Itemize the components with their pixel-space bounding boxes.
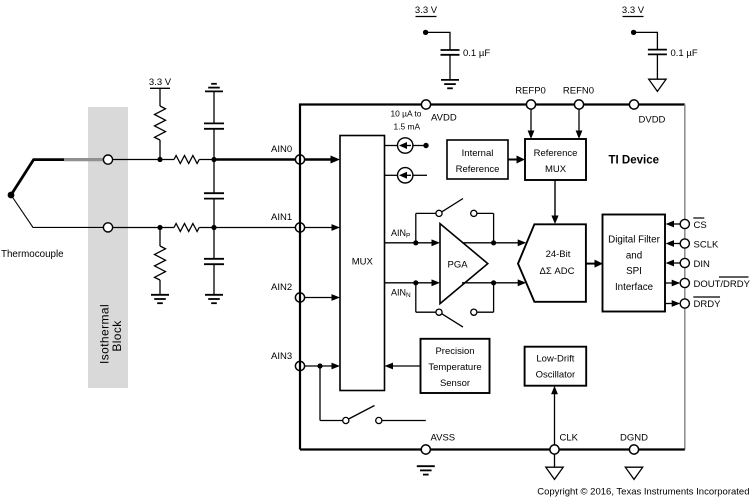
- junction node AIN0 filter: [211, 157, 216, 162]
- Low-Drift Oscillator block: [525, 347, 587, 386]
- wire R1 to node: [159, 140, 161, 160]
- pin REFP0: [526, 100, 535, 109]
- capacitor C2 (differential): [204, 193, 224, 198]
- pin DIN wire/arrow: [672, 262, 681, 264]
- node IDAC1 to AVDD: [423, 143, 428, 148]
- 3.3V supply (AVDD bypass): [415, 5, 438, 17]
- ground (C4): [441, 80, 459, 88]
- svg-text:0.1 µF: 0.1 µF: [671, 48, 698, 59]
- svg-text:TI Device: TI Device: [609, 155, 660, 167]
- MUX U-block: [340, 136, 385, 391]
- pin AIN3: [295, 361, 304, 370]
- wire terminal to series resistor (bottom): [113, 227, 174, 229]
- wire C1 to AIN0 node: [213, 129, 215, 160]
- pin DOUT/DRDY wire/arrow: [666, 282, 674, 284]
- capacitor C3: [204, 259, 224, 264]
- wire switch S1 to AVSS node: [382, 420, 426, 422]
- svg-text:Digital Filter: Digital Filter: [608, 235, 660, 246]
- svg-text:Oscillator: Oscillator: [536, 370, 576, 381]
- svg-text:AVSS: AVSS: [431, 433, 456, 444]
- PGA bypass switch (top): [416, 199, 494, 243]
- svg-text:AIN0: AIN0: [271, 144, 292, 155]
- wire to bypass cap C5: [634, 32, 658, 49]
- wire R3 to ground: [159, 280, 161, 295]
- wire CLK to digital ground: [554, 454, 556, 467]
- CS label: [693, 218, 706, 231]
- DRDY label: [693, 297, 721, 310]
- op-amp PGA: [440, 224, 488, 304]
- svg-text:REFN0: REFN0: [563, 86, 594, 97]
- svg-text:DOUT/DRDY: DOUT/DRDY: [694, 279, 750, 290]
- svg-text:0.1 µF: 0.1 µF: [463, 48, 490, 59]
- thermocouple positive lead (thick): [11, 160, 108, 195]
- wire AIN0 (bold) into device: [214, 158, 332, 161]
- node 3.3V (DVDD): [631, 30, 636, 35]
- pin AVSS: [421, 445, 430, 454]
- wire/arrow CLK to oscillator: [554, 392, 556, 446]
- wire C3 to ground: [213, 264, 215, 294]
- pin AVDD: [421, 100, 430, 109]
- capacitor C5 0.1uF: [648, 50, 667, 55]
- wire AIN0 node to C2: [213, 160, 215, 194]
- svg-text:Internal: Internal: [462, 148, 494, 159]
- svg-text:Interface: Interface: [615, 282, 654, 293]
- IDAC1 current source: [385, 138, 424, 153]
- ADC U2 (24-bit delta-sigma): [518, 224, 586, 301]
- thermocouple junction: [8, 192, 15, 199]
- wire R4 to filter node: [199, 227, 216, 229]
- svg-text:CLK: CLK: [560, 433, 579, 444]
- digital ground (C5): [649, 79, 666, 91]
- junction node output positive: [491, 240, 496, 245]
- ground (C3): [205, 295, 223, 303]
- svg-text:Low-Drift: Low-Drift: [536, 354, 574, 365]
- svg-text:ΔΣ ADC: ΔΣ ADC: [540, 266, 575, 277]
- arrow AIN2 into MUX: [332, 294, 341, 301]
- pin REFN0: [574, 100, 583, 109]
- IDAC range value label: [391, 109, 422, 132]
- junction node output negative: [491, 280, 496, 285]
- wire AIN3 to MUX: [305, 365, 333, 367]
- wire to bypass cap C4: [426, 32, 450, 49]
- DOUT/DRDY label: [694, 277, 750, 290]
- svg-text:10 µA to: 10 µA to: [391, 109, 422, 119]
- Isothermal Block label: [98, 304, 125, 364]
- junction node (R1 / top lead): [157, 157, 162, 162]
- junction node (R3 / bottom lead): [157, 225, 162, 230]
- wire AIN1 into device: [214, 227, 333, 229]
- wire 3.3V to R1: [159, 88, 161, 106]
- ground (R3): [151, 295, 169, 303]
- svg-text:Thermocouple: Thermocouple: [1, 249, 64, 260]
- wire MUX to PGA (negative): [385, 282, 434, 284]
- svg-text:SCLK: SCLK: [694, 240, 719, 251]
- arrow AIN1 into MUX: [332, 224, 341, 231]
- digital ground (CLK): [546, 467, 563, 479]
- wire/arrow Temperature Sensor to MUX: [391, 365, 421, 367]
- terminal (isothermal pass-through, bottom lead): [103, 223, 112, 232]
- svg-text:Sensor: Sensor: [440, 378, 470, 389]
- svg-text:REFP0: REFP0: [515, 86, 546, 97]
- 3.3V supply rail (bias): [149, 77, 172, 88]
- junction node AIN3: [317, 363, 322, 368]
- svg-text:AIN3: AIN3: [271, 351, 292, 362]
- svg-text:1.5 mA: 1.5 mA: [394, 122, 421, 132]
- svg-text:Reference: Reference: [534, 148, 578, 159]
- wire AIN2 to MUX: [305, 297, 333, 299]
- ground (AVSS): [417, 466, 435, 474]
- svg-text:MUX: MUX: [545, 164, 567, 175]
- wire C4 to ground: [449, 55, 451, 80]
- wire AIN1 node to C3: [213, 228, 215, 259]
- svg-text:DGND: DGND: [620, 433, 648, 444]
- pin SCLK wire/arrow: [672, 243, 681, 245]
- svg-text:3.3 V: 3.3 V: [622, 5, 645, 16]
- resistor R4 (series, AIN1): [174, 224, 199, 232]
- TI device outline: [300, 105, 685, 450]
- Digital Filter and SPI Interface block: [603, 215, 666, 312]
- svg-text:Precision: Precision: [435, 346, 474, 357]
- wire PGA output (positive): [462, 242, 519, 244]
- Precision Temperature Sensor block: [421, 339, 490, 393]
- pin DRDY wire/arrow: [666, 303, 674, 305]
- Reference MUX block: [525, 139, 586, 180]
- junction node AINP: [413, 240, 418, 245]
- wire/arrow REFP0 into Reference MUX: [530, 109, 532, 132]
- svg-text:DVDD: DVDD: [639, 115, 666, 126]
- node 3.3V (AVDD): [423, 30, 428, 35]
- 3.3V supply (DVDD bypass): [622, 5, 645, 17]
- ground (inverted, top of filter chain): [205, 84, 223, 92]
- wire ground to C1: [213, 91, 215, 123]
- junction node AINN: [413, 280, 418, 285]
- isothermal block: [88, 107, 128, 388]
- svg-text:Temperature: Temperature: [428, 362, 481, 373]
- svg-text:AIN1: AIN1: [271, 212, 292, 223]
- pin CLK: [550, 445, 559, 454]
- wire C5 to digital ground: [656, 54, 658, 78]
- pin AIN2: [295, 293, 304, 302]
- wire terminal to series resistor (top): [113, 159, 174, 161]
- svg-text:PGA: PGA: [448, 260, 469, 271]
- terminal (isothermal pass-through, top lead): [103, 155, 112, 164]
- pin DGND: [629, 445, 638, 454]
- svg-text:DIN: DIN: [694, 259, 711, 270]
- svg-text:SPI: SPI: [626, 266, 642, 277]
- svg-text:Block: Block: [110, 320, 124, 352]
- pin AIN0: [295, 155, 304, 164]
- wire/arrow Reference MUX to ADC: [554, 180, 556, 218]
- PGA bypass switch (bottom): [416, 283, 494, 327]
- junction node AIN1 filter: [211, 225, 216, 230]
- wire/arrow REFN0 into Reference MUX: [578, 109, 580, 132]
- resistor R1 (pull-up): [155, 106, 166, 140]
- svg-text:Copyright © 2016, Texas Instru: Copyright © 2016, Texas Instruments Inco…: [537, 487, 749, 498]
- svg-text:24-Bit: 24-Bit: [546, 249, 571, 260]
- capacitor C1: [204, 123, 224, 128]
- svg-text:Reference: Reference: [456, 164, 500, 175]
- wire to switch S1: [320, 420, 343, 422]
- arrow AIN3 into MUX: [332, 363, 341, 370]
- svg-text:MUX: MUX: [352, 257, 374, 268]
- wire MUX to PGA (positive): [385, 242, 434, 244]
- Internal Reference block: [447, 140, 508, 179]
- wire/arrow ADC to Digital Filter: [586, 263, 597, 265]
- pin CS wire/arrow: [672, 223, 681, 225]
- digital ground (DGND): [625, 467, 642, 479]
- wire C2 to AIN1 node: [213, 199, 215, 228]
- wire PGA output (negative): [462, 282, 519, 284]
- thermocouple negative lead: [11, 195, 108, 227]
- resistor R2 (series, AIN0): [174, 156, 199, 164]
- switch S1 (AIN3 to AVSS): [343, 406, 382, 424]
- svg-text:3.3 V: 3.3 V: [149, 77, 172, 88]
- wire node to R3 (pull-down): [159, 228, 161, 247]
- svg-text:CS: CS: [694, 220, 707, 231]
- arrow AIN0 into MUX: [331, 156, 341, 164]
- capacitor C4 0.1uF: [441, 50, 460, 55]
- IDAC2 current source: [385, 168, 428, 183]
- svg-text:3.3 V: 3.3 V: [415, 5, 438, 16]
- svg-text:and: and: [626, 250, 642, 261]
- wire R2 to filter node: [199, 159, 216, 161]
- svg-text:DRDY: DRDY: [694, 299, 722, 310]
- wire/arrow Internal Reference to Reference MUX: [508, 159, 519, 161]
- pin AIN1: [295, 223, 304, 232]
- svg-text:AIN2: AIN2: [271, 282, 292, 293]
- resistor R3 (pull-down): [155, 246, 166, 280]
- wire AIN3 down to switch: [319, 366, 321, 421]
- svg-text:AVDD: AVDD: [431, 113, 457, 124]
- pin DVDD: [629, 100, 638, 109]
